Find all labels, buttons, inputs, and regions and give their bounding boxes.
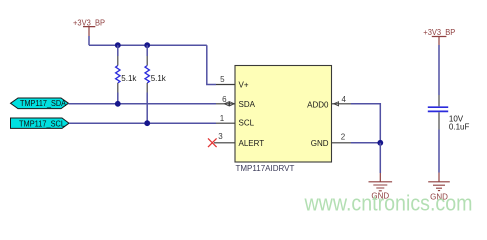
svg-text:GND: GND [311,139,329,148]
pin 1 SCL [216,114,255,127]
wire: R1 bottom lead to SDA line [117,93,119,104]
power +3V3_BP (left) [73,18,105,36]
wire: right power down to capacitor [438,45,440,95]
svg-text:+3V3_BP: +3V3_BP [73,18,105,27]
resistor R1 5.1k [116,56,120,93]
wire: R2 bottom lead crossing SDA to SCL line [146,93,148,124]
svg-text:5.1k: 5.1k [151,74,167,83]
IC U1 TMP117AIDRVT body [235,66,332,163]
power +3V3_BP (right) [423,28,455,45]
svg-text:TMP117AIDRVT: TMP117AIDRVT [236,164,295,173]
wire: rail corner down to V+ row [207,45,216,84]
svg-text:ALERT: ALERT [239,139,265,148]
pin 6 SDA [216,95,256,109]
wire: R2 top lead from rail [146,45,148,56]
svg-text:4: 4 [341,95,346,104]
pin 4 ADD0 [307,95,351,109]
svg-text:+3V3_BP: +3V3_BP [423,28,455,37]
wire: SDA net from flag to pin 6 [69,103,217,105]
junction ADD0/GND node [377,140,383,146]
value label C 10V 0.1uF [449,115,470,132]
svg-text:3: 3 [218,132,223,141]
svg-text:5.1k: 5.1k [121,74,137,83]
wire: R1 top lead from rail [117,45,119,56]
wire: SCL net from flag to pin 1 [69,122,216,124]
pin 5 V+ [216,75,249,90]
capacitor C plates [428,107,448,111]
svg-text:TMP117_SCL: TMP117_SCL [19,119,66,128]
resistor R2 5.1k [145,56,149,93]
capacitor C 0.1uF top lead [438,95,440,106]
svg-text:V+: V+ [239,80,249,89]
net flag TMP117_SDA [11,98,69,109]
pin 2 GND [311,133,351,149]
junction on rail at R1 [115,42,121,48]
wire: left power stub down to rail [88,36,90,45]
svg-text:1: 1 [220,114,225,123]
svg-text:ADD0: ADD0 [307,100,329,109]
junction SCL / R2 [144,120,150,126]
svg-text:2: 2 [341,133,346,142]
svg-text:SCL: SCL [239,119,255,128]
svg-text:0.1uF: 0.1uF [449,123,470,132]
wire: GND pin to junction [351,142,380,144]
ground GND (left) [369,173,393,200]
svg-text:TMP117_SDA: TMP117_SDA [20,99,67,108]
ground GND (right, under capacitor) [428,173,450,202]
no-connect X on pin 3 [208,138,217,147]
junction SDA / R1 [115,101,121,107]
svg-text:SDA: SDA [239,100,256,109]
wire: top rail from power to corner [89,44,207,46]
svg-text:www.cntronics.com: www.cntronics.com [304,190,473,215]
net flag TMP117_SCL [11,118,70,128]
wire: capacitor to ground [438,130,440,173]
svg-text:5: 5 [220,75,225,84]
junction on rail at R2 [144,42,150,48]
wire: ADD0 to right column [351,104,380,143]
pin 3 ALERT (no connect) [214,132,264,148]
wire: junction down to ground [379,143,381,173]
capacitor C bottom lead [438,112,440,129]
